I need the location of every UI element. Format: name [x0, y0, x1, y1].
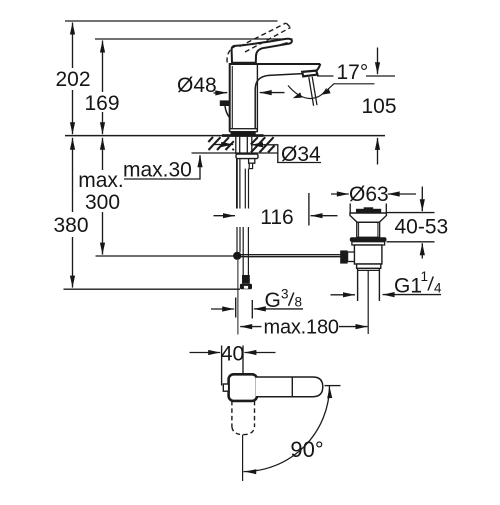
svg-text:202: 202 — [55, 68, 90, 91]
bottom view tab — [223, 384, 228, 391]
waste plug dark bar — [356, 209, 381, 213]
waste Ø63 extension lines — [349, 204, 351, 214]
17 degree leader — [334, 83, 375, 85]
bottom view centerline — [242, 435, 244, 481]
dimension Ø48 right arrow — [260, 92, 285, 94]
pop-up rod knob dark — [340, 250, 347, 263]
svg-text:40-53: 40-53 — [395, 216, 449, 239]
G3/8 left arrow — [211, 308, 234, 310]
svg-text:116: 116 — [260, 206, 293, 229]
faucet body and spout outline — [230, 64, 321, 132]
extension line max.300 bottom — [96, 255, 234, 257]
svg-text:max.30: max.30 — [123, 159, 192, 182]
svg-text:169: 169 — [84, 92, 119, 115]
label Ø34 leader — [266, 145, 321, 163]
dimension 105 upper arrow — [377, 48, 379, 75]
G3/8 extension lines — [235, 298, 237, 318]
dimension 40-53 arrows — [421, 187, 423, 212]
pop-up rod vertical extension — [237, 260, 239, 335]
supply hoses lower — [237, 227, 248, 275]
svg-text:380: 380 — [53, 214, 88, 237]
stream angle arc — [288, 86, 327, 99]
waste upper body — [357, 222, 380, 237]
svg-text:40: 40 — [221, 343, 244, 366]
pop-up joint dot — [233, 252, 241, 260]
svg-text:105: 105 — [361, 95, 396, 118]
bottom view handle arm — [256, 377, 323, 397]
waste centerline — [367, 270, 369, 334]
dimension 169 line — [102, 41, 104, 93]
deck hatching left — [208, 137, 234, 150]
90 degree arc arrowheads — [327, 387, 332, 399]
waste lower body — [354, 245, 382, 264]
mounting washer — [236, 154, 258, 159]
bottom view dashed spout — [232, 401, 255, 435]
G1 1/4 leader arrows — [331, 294, 356, 296]
bottom view right extension line — [325, 385, 341, 387]
dimension 116 right arrow — [311, 215, 338, 217]
dimension 105 lower arrow — [377, 138, 379, 165]
dimension Ø48 left arrow — [214, 92, 228, 94]
G3/8 fitting flange — [240, 284, 252, 290]
svg-text:3: 3 — [281, 287, 289, 302]
handle lever solid — [232, 39, 292, 63]
extension line 380 bottom — [64, 288, 241, 290]
faucet base gasket dark — [231, 131, 256, 135]
water stream lines — [309, 77, 314, 106]
waste rubber washer dark — [350, 237, 387, 241]
dimension Ø34 arrows — [214, 144, 233, 146]
dimension 40 arrows — [190, 352, 221, 354]
waste tailpipe — [357, 268, 359, 301]
svg-text:Ø48: Ø48 — [177, 74, 217, 97]
horizontal pop-up rod — [241, 254, 341, 256]
dimension 202 line — [72, 23, 74, 69]
label G3/8 — [265, 287, 303, 313]
svg-text:G: G — [265, 289, 281, 312]
dimension max.30 leader — [124, 156, 200, 179]
dimension 202 extension line top — [65, 20, 278, 22]
90 degree arc — [244, 386, 330, 472]
dimension max.300 line — [102, 138, 104, 170]
dimension Ø63 arrows — [331, 193, 349, 195]
bottom view handle divider — [291, 377, 293, 397]
waste bottom lip — [357, 264, 381, 268]
svg-text:8: 8 — [295, 295, 303, 310]
dimension 380 line — [72, 138, 74, 212]
bottom view handle base bold — [229, 374, 257, 401]
dimension 116 left arrow — [214, 215, 236, 217]
pop-up rod knob at faucet back — [220, 100, 229, 106]
svg-text:4: 4 — [434, 281, 442, 296]
svg-text:max.180: max.180 — [264, 317, 339, 339]
svg-text:1: 1 — [421, 269, 429, 284]
svg-text:17°: 17° — [337, 61, 369, 84]
faucet base plate — [230, 129, 257, 132]
G3/8 fitting nut dark — [242, 275, 250, 284]
waste flange — [350, 213, 386, 222]
spout level extension line — [317, 75, 334, 77]
svg-text:300: 300 — [85, 191, 120, 214]
label G1 1/4 — [394, 269, 442, 298]
aerator — [302, 71, 317, 77]
waste nut — [352, 242, 385, 245]
svg-text:max.: max. — [78, 169, 124, 192]
svg-text:Ø34: Ø34 — [281, 143, 321, 166]
svg-text:90°: 90° — [290, 437, 323, 462]
handle lever tip inner line — [281, 43, 288, 45]
dimension 169 extension line top — [95, 38, 293, 40]
G3/8 right arrow with leader — [254, 308, 265, 310]
handle raised dashed position — [227, 23, 291, 63]
shank through deck — [236, 137, 252, 154]
svg-text:Ø63: Ø63 — [349, 183, 389, 206]
deck bottom line — [192, 152, 279, 154]
pop-up rod connector — [249, 159, 255, 164]
supply hoses upper — [237, 159, 249, 209]
deck top line — [65, 135, 385, 137]
dimension max.180 left arrow — [240, 326, 261, 328]
dimension 116 right extension line — [308, 193, 310, 226]
bottom view 40 dimension extension lines — [221, 346, 223, 386]
waste plug knob — [364, 207, 374, 209]
faucet body inner edge lines — [231, 66, 233, 131]
40-53 extension lines — [387, 212, 435, 214]
deck hatching right — [251, 137, 275, 152]
faucet base gasket wide — [222, 134, 264, 137]
pop-up rod ball joint — [348, 252, 355, 262]
spout underside — [255, 74, 302, 132]
dimension max.180 right arrow — [339, 326, 368, 328]
